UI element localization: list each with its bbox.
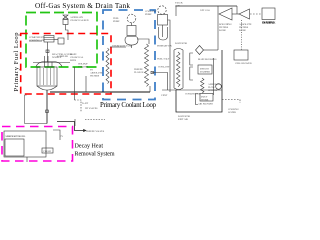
svg-text:EXHAUST STACK: EXHAUST STACK [262,21,276,25]
svg-text:Removal System: Removal System [75,151,115,157]
svg-text:SAMPLER: SAMPLER [57,55,68,58]
svg-text:MSRE DRAIN TANK CELL: MSRE DRAIN TANK CELL [6,135,27,138]
svg-text:DAMPER: DAMPER [200,71,210,74]
svg-text:COOLING AIR: COOLING AIR [29,39,45,42]
svg-text:Decay Heat: Decay Heat [75,143,104,149]
svg-text:PRIMARY HX: PRIMARY HX [157,45,172,48]
svg-text:COOLING AIR: COOLING AIR [185,93,201,96]
svg-text:FILTERS: FILTERS [90,75,100,78]
svg-text:Primary Coolant Loop: Primary Coolant Loop [100,102,157,109]
svg-text:SENSOR: SENSOR [208,89,218,92]
svg-text:BANK: BANK [239,29,246,32]
svg-text:FUEL SALT: FUEL SALT [157,58,170,61]
svg-text:Primary Fuel Loop: Primary Fuel Loop [13,32,20,92]
svg-text:AIR PLENUM: AIR PLENUM [198,103,213,106]
svg-text:VENT: VENT [161,94,168,97]
svg-text:MAIN BLOWERS: MAIN BLOWERS [198,58,217,61]
svg-text:PUMP: PUMP [113,20,120,23]
svg-text:VOLUME: VOLUME [78,66,89,69]
svg-text:WORK: WORK [201,99,209,102]
svg-text:WATER: WATER [228,111,236,114]
svg-text:BANK: BANK [219,29,226,32]
svg-text:FD VALVES: FD VALVES [85,107,98,110]
svg-text:CELL BLOWER: CELL BLOWER [235,62,252,65]
svg-text:FLANGE: FLANGE [134,71,144,74]
svg-text:RADIATOR: RADIATOR [175,42,187,45]
svg-text:FV: FV [60,135,63,138]
svg-text:OFF GAS: OFF GAS [200,9,210,12]
svg-text:FAN: FAN [175,5,180,8]
svg-text:BEDS: BEDS [70,59,77,62]
svg-text:To DT: To DT [82,102,89,105]
svg-text:FLUSH: FLUSH [44,150,52,153]
svg-text:OVERFLOW TANK: OVERFLOW TANK [112,45,133,48]
svg-text:COOLANT: COOLANT [158,66,170,69]
svg-text:CHARCOAL BED: CHARCOAL BED [70,19,89,22]
svg-text:PUMP: PUMP [145,13,152,16]
svg-text:Off-Gas System & Drain Tank: Off-Gas System & Drain Tank [35,2,130,10]
svg-text:EXIT AIR: EXIT AIR [178,118,188,121]
svg-text:FREEZE VALVES: FREEZE VALVES [86,130,105,133]
